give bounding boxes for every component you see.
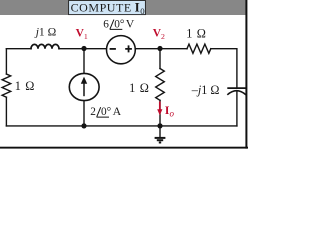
wire resistor to right corner [211,49,237,88]
svg-text:1 Ω: 1 Ω [129,81,149,95]
left wire upper [5,49,7,74]
wire right below capacitor [236,92,238,126]
node V1 junction dot [81,46,86,51]
svg-text:V: V [126,17,135,31]
resistor 1 ohm left [2,74,11,97]
plus sign [125,45,132,52]
svg-text:2: 2 [90,106,96,118]
svg-text:1 Ω: 1 Ω [15,79,35,93]
wire middle resistor to bottom [159,100,161,126]
svg-text:COMPUTE: COMPUTE [71,1,132,15]
node V2 junction dot [157,46,162,51]
bottom frame border [0,147,248,149]
voltage source U1 circle [107,36,136,64]
svg-text:1 Ω: 1 Ω [186,26,206,40]
wire V2 node down [159,49,161,69]
bottom junction dot right [157,123,162,128]
I0 red arrow [159,102,161,111]
svg-text:I: I [135,0,140,15]
wire inductor to source [59,48,107,50]
svg-text:0: 0 [140,6,145,16]
capacitor curved plate [227,91,246,95]
current source arrow [83,82,85,96]
svg-text:0°: 0° [101,106,111,118]
capacitor -j1 ohm top plate [227,87,246,89]
bottom junction dot left [81,123,86,128]
wire top-left segment [6,48,31,50]
left wire lower [5,97,7,126]
right frame border [245,0,247,149]
current source circle [69,73,99,100]
minus sign [110,48,116,50]
wire current source to bottom [83,101,85,126]
header gray bar [0,0,246,15]
svg-text:j1 Ω: j1 Ω [34,25,57,38]
wire source to resistor [135,48,187,50]
inductor j1 ohm [31,44,59,48]
resistor 1 ohm top right [187,44,211,53]
svg-text:6: 6 [103,19,109,31]
title box [69,1,146,15]
resistor 1 ohm middle [156,69,165,101]
svg-text:0°: 0° [114,19,124,31]
svg-text:–j1 Ω: –j1 Ω [191,83,220,97]
ground symbol [155,126,166,143]
wire V1 node down to current source [83,49,85,74]
bottom wire [6,125,237,127]
svg-text:A: A [113,104,122,118]
